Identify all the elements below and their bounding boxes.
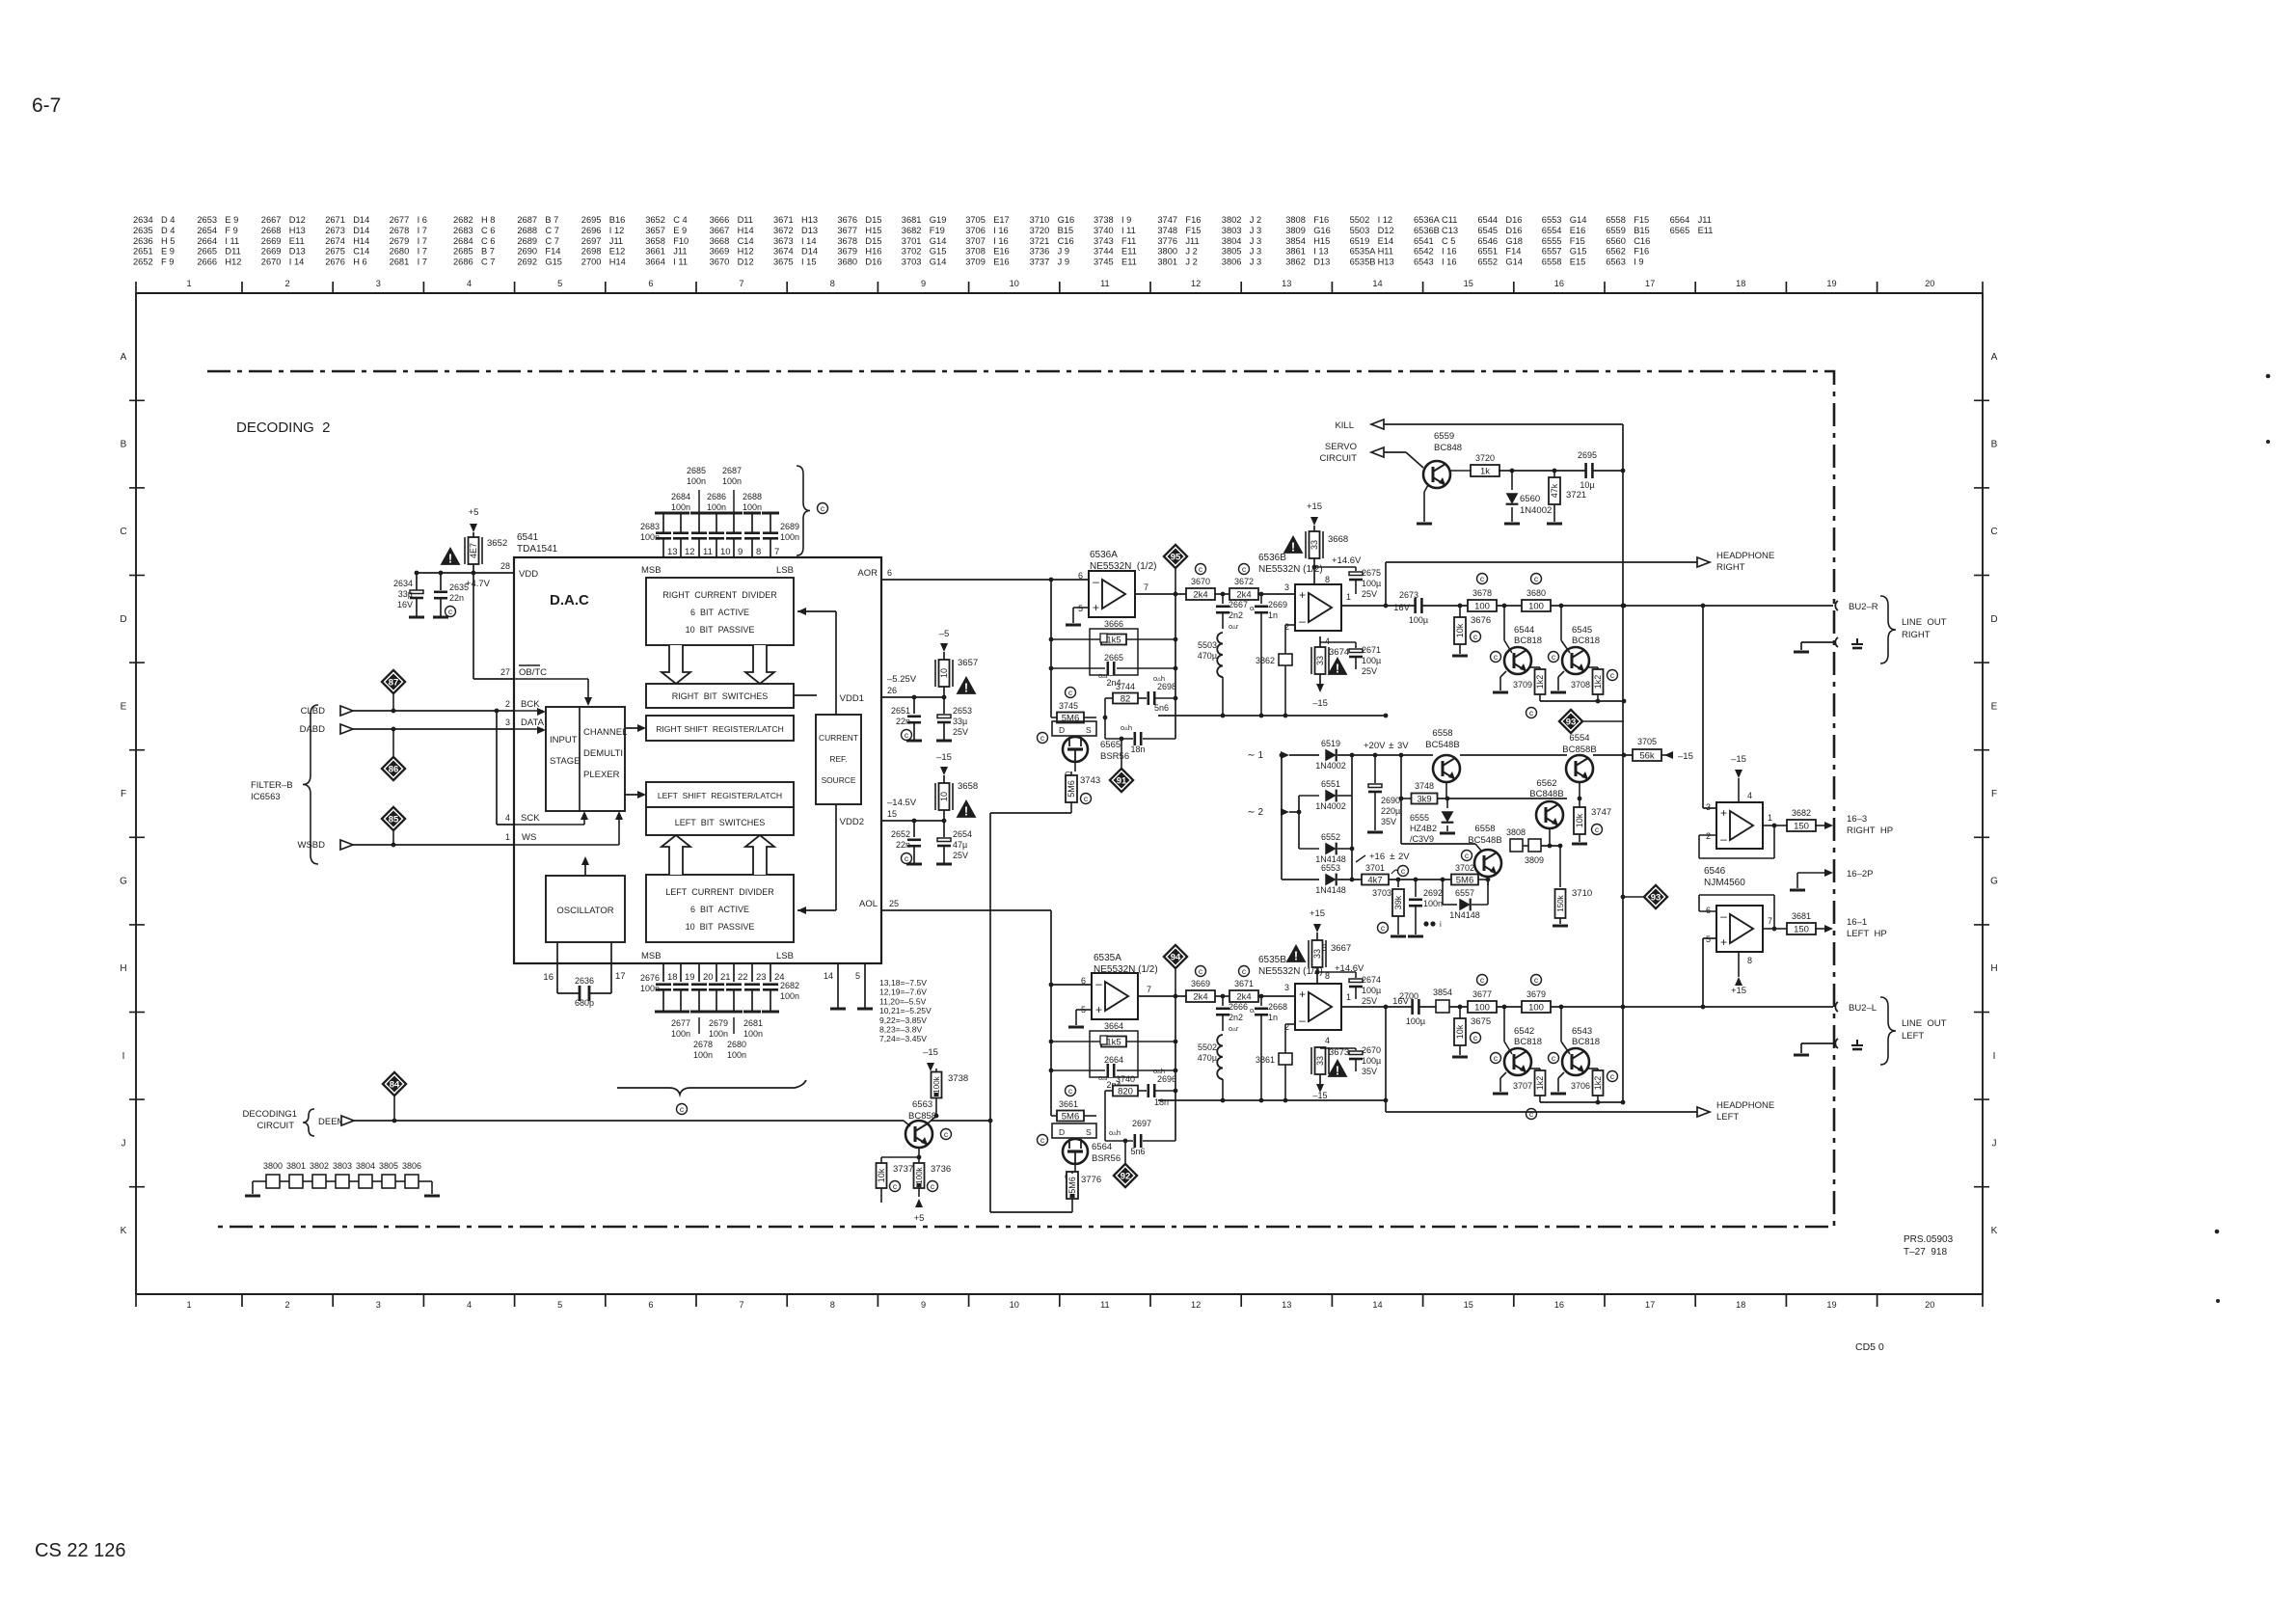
- wire 3652 to pin 28 VDD: [415, 564, 514, 575]
- svg-text:1N4002: 1N4002: [1315, 801, 1346, 811]
- svg-text:+15: +15: [1310, 908, 1325, 919]
- svg-text:100n: 100n: [671, 1029, 690, 1039]
- capacitor 2676 100n: [655, 985, 672, 1012]
- svg-text:c: c: [931, 1181, 935, 1191]
- label LSB bottom: [776, 951, 794, 961]
- capacitor 2682 100n: [762, 985, 779, 1012]
- svg-text:6535B: 6535B: [1350, 257, 1376, 267]
- svg-text:J11: J11: [1698, 215, 1712, 225]
- label capacitor 2681: [743, 1018, 763, 1039]
- svg-text:6: 6: [648, 1300, 653, 1310]
- label capacitor 2680: [727, 1040, 746, 1060]
- svg-text:17: 17: [1645, 279, 1655, 288]
- pin 4 SCK: [495, 709, 588, 825]
- svg-text:3674: 3674: [1329, 647, 1349, 658]
- svg-text:E16: E16: [1570, 226, 1586, 235]
- svg-text:c: c: [905, 853, 909, 863]
- svg-text:6541: 6541: [517, 532, 539, 543]
- svg-text:G14: G14: [1505, 257, 1523, 267]
- svg-text:19: 19: [1826, 279, 1836, 288]
- svg-text:95: 95: [1171, 552, 1181, 562]
- svg-text:2683: 2683: [640, 522, 660, 531]
- svg-text:PRS.05903: PRS.05903: [1904, 1234, 1954, 1245]
- svg-text:+: +: [1299, 988, 1306, 1001]
- svg-text:21: 21: [720, 972, 731, 983]
- svg-text:10: 10: [939, 668, 949, 678]
- svg-text:2652: 2652: [133, 257, 153, 267]
- input AC 2: [1247, 807, 1301, 818]
- svg-text:G: G: [1990, 877, 1998, 887]
- pin 26 VDD1: [881, 674, 942, 697]
- svg-text:!: !: [1294, 950, 1298, 963]
- svg-text:2665: 2665: [197, 247, 217, 257]
- supply -15 3674 branch: [1311, 636, 1349, 709]
- svg-text:G19: G19: [930, 215, 947, 225]
- svg-text:6519: 6519: [1321, 739, 1340, 748]
- svg-text:–15: –15: [1312, 698, 1328, 709]
- svg-text:2696: 2696: [1157, 1074, 1176, 1084]
- svg-text:27: 27: [500, 667, 510, 677]
- svg-text:I 16: I 16: [993, 236, 1009, 246]
- node DEEM: [243, 1109, 904, 1136]
- svg-text:6 BIT ACTIVE: 6 BIT ACTIVE: [690, 905, 749, 914]
- svg-text:E17: E17: [993, 215, 1010, 225]
- svg-text:3802: 3802: [310, 1161, 329, 1171]
- wire 6536B output to line: [1341, 604, 1833, 609]
- wire 6535B pin2: [1285, 1024, 1295, 1036]
- svg-text:c: c: [1068, 688, 1073, 697]
- svg-text:J 3: J 3: [1250, 247, 1261, 257]
- svg-text:6552: 6552: [1477, 257, 1498, 267]
- svg-text:DATA: DATA: [521, 717, 545, 728]
- svg-text:100: 100: [1528, 602, 1544, 612]
- capacitor 2666 2n2: [1216, 996, 1248, 1033]
- svg-text:B 7: B 7: [481, 247, 495, 257]
- resistor 3672 2k4: [1229, 564, 1295, 601]
- arrow demultiplexer to left shift register: [625, 791, 646, 798]
- svg-text:100n: 100n: [1423, 899, 1443, 908]
- capacitor 2695 10u: [1578, 450, 1597, 490]
- svg-text:3677: 3677: [1472, 989, 1492, 999]
- svg-text:1k2: 1k2: [1593, 1076, 1603, 1091]
- svg-text:I 13: I 13: [1313, 247, 1329, 257]
- svg-text:6565: 6565: [1100, 740, 1121, 750]
- svg-text:26: 26: [887, 686, 897, 695]
- svg-text:6557: 6557: [1542, 247, 1562, 257]
- svg-text:100µ: 100µ: [1362, 579, 1381, 588]
- FET 6565 BSR56: [1038, 721, 1130, 779]
- svg-text:17: 17: [1645, 1300, 1655, 1310]
- svg-text:13: 13: [1282, 279, 1291, 288]
- svg-text:+14.6V: +14.6V: [1332, 555, 1362, 566]
- svg-text:1k2: 1k2: [1535, 675, 1545, 690]
- transistor 6562 BC848B: [1529, 778, 1563, 848]
- svg-text:3678: 3678: [1472, 588, 1492, 598]
- svg-text:–: –: [1720, 909, 1727, 923]
- capacitor 2684 100n: [672, 513, 689, 538]
- svg-text:–: –: [1720, 832, 1727, 846]
- svg-text:8: 8: [830, 1300, 835, 1310]
- svg-text:E: E: [1991, 701, 1998, 712]
- svg-text:10: 10: [720, 547, 731, 557]
- svg-text:C 7: C 7: [481, 257, 495, 267]
- svg-text:RIGHT HP: RIGHT HP: [1847, 826, 1893, 836]
- capacitor 2673 100u: [1393, 590, 1428, 625]
- svg-text:c: c: [1595, 825, 1600, 834]
- bus arrow right divider to bit switches 1: [662, 645, 690, 684]
- svg-text:T–27 918: T–27 918: [1904, 1247, 1947, 1258]
- svg-text:I 11: I 11: [1121, 226, 1136, 235]
- resistor 3854: [1433, 988, 1452, 1013]
- wire VDD to pin 27 OB/TC: [473, 573, 514, 679]
- svg-text:c: c: [1242, 564, 1247, 574]
- svg-text:93: 93: [1651, 892, 1661, 903]
- block CURRENT REF. SOURCE: [816, 715, 861, 804]
- svg-text:F15: F15: [1570, 236, 1585, 246]
- label VDD1: [840, 693, 864, 704]
- svg-text:2689: 2689: [517, 236, 537, 246]
- svg-text:2685: 2685: [687, 466, 706, 475]
- svg-text:6545: 6545: [1477, 226, 1498, 235]
- svg-text:2680: 2680: [727, 1040, 746, 1049]
- resistor 3671 2k4: [1229, 966, 1295, 1003]
- capacitor 2689 100n: [762, 513, 779, 538]
- svg-text:o▵h: o▵h: [1109, 1128, 1121, 1137]
- svg-text:I 7: I 7: [418, 257, 427, 267]
- svg-text:10: 10: [1010, 1300, 1019, 1310]
- capacitor 2679 100n: [708, 985, 725, 1012]
- svg-text:H14: H14: [738, 226, 754, 235]
- resistor 3710 150k: [1553, 846, 1592, 926]
- svg-text:11: 11: [1100, 1300, 1110, 1310]
- svg-text:2683: 2683: [453, 226, 473, 235]
- svg-text:F 9: F 9: [161, 257, 174, 267]
- svg-text:BC548B: BC548B: [1425, 740, 1459, 750]
- resistor 3740 820: [1105, 1074, 1147, 1141]
- svg-text:+16: +16: [1369, 852, 1385, 862]
- svg-text:C 6: C 6: [481, 226, 495, 235]
- node 16-1 LEFT HP: [1847, 917, 1887, 939]
- svg-text:H: H: [120, 963, 126, 974]
- svg-text:5M6: 5M6: [1062, 1112, 1079, 1123]
- svg-text:16V: 16V: [1393, 603, 1411, 613]
- svg-text:3743: 3743: [1094, 236, 1114, 246]
- resistor 3743 5M6: [1066, 771, 1100, 813]
- svg-text:D: D: [1990, 614, 1997, 625]
- svg-text:3854: 3854: [1433, 988, 1452, 997]
- svg-text:VDD1: VDD1: [840, 693, 864, 704]
- pin 25 AOL wire: [859, 899, 1053, 987]
- svg-text:c: c: [1529, 1109, 1534, 1119]
- svg-text:7: 7: [740, 1300, 744, 1310]
- svg-text:3667: 3667: [710, 226, 730, 235]
- svg-text:3720: 3720: [1475, 453, 1495, 463]
- svg-text:9: 9: [921, 279, 926, 288]
- svg-text:J 9: J 9: [1058, 247, 1069, 257]
- svg-text:2697: 2697: [581, 236, 602, 246]
- svg-text:10,21=–5.25V: 10,21=–5.25V: [879, 1006, 932, 1015]
- svg-text:J: J: [122, 1138, 126, 1149]
- svg-text:8: 8: [830, 279, 835, 288]
- svg-text:6543: 6543: [1572, 1026, 1592, 1037]
- svg-text:6552: 6552: [1321, 832, 1340, 842]
- label capacitor 2684: [671, 492, 690, 512]
- svg-text:22n: 22n: [449, 593, 464, 603]
- inductor 5503 470u: [1198, 633, 1223, 716]
- capacitor 2671 100u 25V: [1320, 642, 1381, 676]
- svg-text:C14: C14: [353, 247, 369, 257]
- svg-text:13,18=–7.5V: 13,18=–7.5V: [879, 978, 927, 988]
- resistor 3664 1k5: [1051, 1021, 1175, 1048]
- svg-text:33: 33: [1315, 1056, 1325, 1066]
- block RIGHT BIT SWITCHES: [646, 684, 794, 708]
- svg-text:4: 4: [505, 813, 510, 823]
- svg-text:1: 1: [1346, 992, 1351, 1002]
- svg-text:B15: B15: [1058, 226, 1074, 235]
- op-amp 6546 NJM4560 B: [1706, 906, 1772, 965]
- svg-text:c: c: [1465, 851, 1470, 860]
- svg-text:I 7: I 7: [418, 236, 427, 246]
- svg-text:14: 14: [1372, 279, 1382, 288]
- svg-text:F16: F16: [1185, 215, 1201, 225]
- svg-text:c: c: [1610, 1071, 1615, 1081]
- svg-text:3800: 3800: [1157, 247, 1177, 257]
- label +14.6V right: [1332, 555, 1362, 566]
- svg-text:OB/TC: OB/TC: [519, 667, 547, 678]
- svg-text:17: 17: [615, 971, 626, 982]
- capacitor 2698 5n6: [1148, 674, 1178, 713]
- feedback rail left channel: [1158, 1039, 1388, 1102]
- svg-text:F19: F19: [930, 226, 945, 235]
- svg-text:C: C: [120, 527, 126, 537]
- svg-text:3k9: 3k9: [1417, 795, 1431, 805]
- svg-text:25V: 25V: [953, 727, 968, 737]
- svg-text:3661: 3661: [645, 247, 665, 257]
- wire DEEM bus to 3743: [990, 813, 1071, 1212]
- svg-text:–15: –15: [1312, 1091, 1327, 1100]
- capacitor 2681 100n: [743, 985, 761, 1012]
- capacitor 2690 220u 35V: [1367, 755, 1400, 832]
- svg-text:14: 14: [824, 971, 833, 981]
- wire 6536A output: [1135, 592, 1188, 597]
- svg-text:C11: C11: [1442, 215, 1457, 225]
- pin 3 DATA: [505, 717, 546, 734]
- svg-text:100n: 100n: [722, 476, 742, 486]
- svg-text:3: 3: [376, 279, 381, 288]
- svg-text:2692: 2692: [1423, 888, 1443, 898]
- svg-text:3705: 3705: [1637, 737, 1657, 746]
- svg-text:2k4: 2k4: [1236, 590, 1251, 601]
- svg-text:35V: 35V: [1381, 817, 1396, 826]
- svg-text:100n: 100n: [693, 1050, 713, 1060]
- capacitor 2635 22n: [433, 573, 469, 617]
- svg-text:K: K: [1991, 1226, 1998, 1236]
- page connector diamond 91: [1109, 737, 1134, 793]
- svg-text:100n: 100n: [743, 1029, 763, 1039]
- svg-text:OSCILLATOR: OSCILLATOR: [556, 906, 613, 916]
- svg-text:2675: 2675: [325, 247, 345, 257]
- svg-text:J 3: J 3: [1250, 226, 1261, 235]
- svg-text:9: 9: [738, 547, 743, 557]
- svg-text:RIGHT BIT SWITCHES: RIGHT BIT SWITCHES: [672, 691, 769, 701]
- svg-text:LEFT CURRENT DIVIDER: LEFT CURRENT DIVIDER: [665, 887, 774, 897]
- svg-text:c: c: [1534, 574, 1539, 583]
- svg-text:3677: 3677: [837, 226, 857, 235]
- resistor 3669 2k4: [1186, 966, 1215, 1003]
- svg-text:3681: 3681: [902, 215, 922, 225]
- resistor 3745 5M6: [1051, 688, 1096, 724]
- grid ruler border: [136, 282, 1983, 1307]
- svg-text:9,22=–3.85V: 9,22=–3.85V: [879, 1015, 927, 1025]
- svg-text:3737: 3737: [893, 1164, 913, 1175]
- svg-text:1: 1: [505, 832, 510, 842]
- svg-text:F16: F16: [1313, 215, 1329, 225]
- svg-text:B16: B16: [609, 215, 626, 225]
- emitter rail left to bus: [1526, 1090, 1626, 1120]
- svg-text:23: 23: [756, 972, 767, 983]
- svg-text:E 9: E 9: [225, 215, 238, 225]
- capacitor 2653 33u 25V: [936, 697, 972, 741]
- diode 6519 1N4002: [1315, 739, 1433, 771]
- svg-text:6553: 6553: [1542, 215, 1562, 225]
- svg-text:12: 12: [1191, 279, 1201, 288]
- svg-text:3801: 3801: [286, 1161, 306, 1171]
- label capacitor 2683: [640, 522, 660, 542]
- svg-text:33: 33: [1315, 656, 1325, 665]
- DAC top pins 13-7: [663, 538, 779, 557]
- svg-text:CHANNEL: CHANNEL: [583, 727, 627, 738]
- svg-text:3747: 3747: [1591, 807, 1611, 818]
- svg-text:3658: 3658: [958, 781, 978, 792]
- svg-text:2: 2: [505, 699, 510, 709]
- svg-text:5: 5: [1706, 934, 1711, 944]
- svg-text:2668: 2668: [261, 226, 282, 235]
- node 16-2P: [1790, 869, 1873, 890]
- svg-text:c: c: [1473, 632, 1478, 641]
- svg-text:100µ: 100µ: [1362, 656, 1381, 665]
- svg-text:13: 13: [1282, 1300, 1291, 1310]
- svg-text:±: ±: [1390, 852, 1395, 862]
- svg-text:100n: 100n: [640, 532, 660, 542]
- svg-text:6558: 6558: [1474, 824, 1495, 834]
- svg-text:B: B: [121, 440, 127, 450]
- resistor 3744 82: [1105, 682, 1147, 739]
- resistor 3679 100: [1522, 975, 1551, 1014]
- svg-text:25V: 25V: [1362, 589, 1377, 599]
- capacitor 2669 1n: [1250, 594, 1287, 636]
- svg-text:c: c: [1480, 975, 1485, 985]
- svg-text:3669: 3669: [710, 247, 730, 257]
- op-amp 6546 NJM4560 A: [1706, 791, 1772, 849]
- svg-text:1N4148: 1N4148: [1449, 910, 1480, 920]
- grid column numbers bottom: [186, 1300, 1934, 1310]
- svg-text:3679: 3679: [837, 247, 857, 257]
- svg-text:I 16: I 16: [993, 226, 1009, 235]
- svg-text:H 5: H 5: [161, 236, 175, 246]
- svg-text:BSR56: BSR56: [1092, 1153, 1121, 1164]
- svg-text:150: 150: [1794, 822, 1809, 832]
- svg-text:1k5: 1k5: [1106, 636, 1121, 646]
- svg-text:2686: 2686: [707, 492, 726, 501]
- svg-text:33: 33: [1312, 949, 1322, 959]
- svg-text:100n: 100n: [709, 1029, 728, 1039]
- svg-text:S: S: [1086, 1127, 1092, 1137]
- svg-text:3: 3: [1284, 983, 1289, 992]
- supply +15 opamp B: [1731, 952, 1746, 996]
- svg-text:INPUT: INPUT: [550, 735, 578, 745]
- svg-text:3675: 3675: [773, 257, 794, 267]
- svg-text:3666: 3666: [1104, 619, 1123, 629]
- svg-text:E12: E12: [609, 247, 626, 257]
- svg-text:–: –: [1299, 614, 1306, 628]
- DAC bottom pins 18-24: [663, 964, 785, 983]
- svg-text:6563: 6563: [1606, 257, 1626, 267]
- resistor 3721 47k: [1547, 471, 1586, 524]
- svg-text:+15: +15: [1731, 986, 1746, 996]
- resistor 3861: [1256, 1036, 1292, 1100]
- capacitor 2664 2n4: [1051, 1055, 1175, 1090]
- svg-text:11: 11: [703, 547, 713, 557]
- svg-text:C14: C14: [738, 236, 754, 246]
- svg-text:6558: 6558: [1606, 215, 1626, 225]
- speck mark upper right: [2266, 374, 2271, 444]
- svg-text:25V: 25V: [1362, 666, 1377, 676]
- model label CD50: [1855, 1341, 1884, 1353]
- svg-text:G16: G16: [1313, 226, 1331, 235]
- supply -5 and resistor 3657 10: [935, 629, 978, 699]
- svg-text:H 6: H 6: [353, 257, 366, 267]
- svg-text:680p: 680p: [575, 998, 594, 1008]
- svg-text:3652: 3652: [487, 538, 507, 549]
- svg-text:3682: 3682: [902, 226, 922, 235]
- svg-text:3805: 3805: [379, 1161, 398, 1171]
- svg-text:19: 19: [685, 972, 695, 983]
- svg-text:BU2–R: BU2–R: [1849, 602, 1878, 612]
- svg-text:3748: 3748: [1157, 226, 1177, 235]
- svg-text:8: 8: [1325, 575, 1330, 584]
- svg-text:3680: 3680: [837, 257, 857, 267]
- svg-text:4: 4: [467, 1300, 472, 1310]
- svg-text:+: +: [1720, 806, 1727, 820]
- svg-text:E16: E16: [993, 257, 1010, 267]
- svg-text:–5: –5: [939, 629, 950, 639]
- svg-text:6559: 6559: [1434, 431, 1454, 442]
- svg-text:C: C: [1990, 527, 1997, 537]
- resistor 3720 1k: [1471, 453, 1625, 477]
- svg-text:i: i: [1440, 920, 1442, 929]
- IC 6541 TDA1541 D.A.C outline: [514, 557, 881, 963]
- svg-text:D14: D14: [801, 247, 818, 257]
- svg-text:2687: 2687: [722, 466, 742, 475]
- svg-text:3708: 3708: [965, 247, 986, 257]
- svg-text:HZ4B2: HZ4B2: [1410, 824, 1437, 833]
- unit boundary dash-dot frame: [207, 371, 1834, 1227]
- svg-text:!: !: [1291, 541, 1295, 555]
- svg-text:35V: 35V: [1362, 1067, 1377, 1076]
- label capacitor 2689: [780, 522, 799, 542]
- svg-text:CURRENT: CURRENT: [819, 733, 858, 743]
- svg-text:1: 1: [186, 1300, 191, 1310]
- capacitor 2700 100u: [1392, 991, 1425, 1026]
- svg-text:15: 15: [887, 809, 897, 819]
- svg-text:16V: 16V: [397, 600, 413, 609]
- svg-text:H12: H12: [225, 257, 241, 267]
- svg-text:15: 15: [1464, 279, 1473, 288]
- wire main bus vertical: [1621, 424, 1626, 1090]
- svg-text:H: H: [1990, 963, 1997, 974]
- svg-text:4: 4: [1325, 1036, 1330, 1045]
- svg-text:470µ: 470µ: [1198, 1053, 1217, 1063]
